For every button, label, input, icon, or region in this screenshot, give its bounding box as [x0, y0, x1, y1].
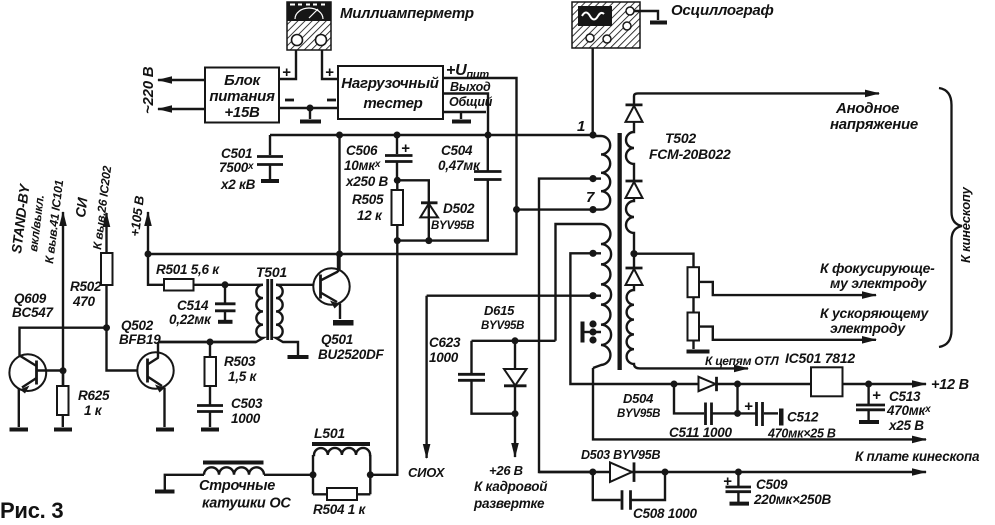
oscilloscope ground wire: [634, 11, 658, 20]
svg-text:К кадровой: К кадровой: [474, 479, 548, 494]
svg-text:BC547: BC547: [12, 305, 55, 320]
resistor R503: [205, 342, 217, 405]
wire power- to tester-: [279, 107, 338, 109]
node minus junction: [307, 105, 314, 112]
~220V lower wire: [158, 108, 205, 110]
label - power: [285, 99, 294, 102]
node pin1: [589, 131, 596, 138]
resistor screen: [688, 313, 700, 341]
wire tap253 down to D504 line: [570, 253, 674, 384]
svg-text:+: +: [325, 64, 334, 81]
IC501 box: [811, 367, 843, 396]
resistor R625: [54, 370, 72, 430]
svg-text:C514: C514: [177, 298, 209, 313]
svg-text:R502: R502: [70, 279, 102, 294]
svg-text:+: +: [872, 387, 881, 404]
wire +26V arrow: [514, 414, 516, 457]
node D502 anode: [425, 237, 432, 244]
svg-text:+: +: [401, 140, 410, 157]
node R505 bottom: [394, 237, 401, 244]
svg-text:C501: C501: [221, 146, 252, 161]
svg-text:Рис. 3: Рис. 3: [0, 498, 63, 523]
transformer T501 primary winding: [158, 285, 263, 342]
svg-text:220мк×250В: 220мк×250В: [753, 492, 832, 507]
wire between divider resistors: [692, 297, 694, 312]
svg-text:+: +: [723, 473, 732, 490]
capacitor C504: [474, 135, 502, 180]
svg-text:0,47мк: 0,47мк: [438, 158, 481, 173]
diode HV3: [626, 268, 643, 285]
svg-text:T501: T501: [256, 264, 287, 280]
svg-text:C512: C512: [787, 410, 819, 425]
power supply box: [205, 68, 279, 123]
svg-text:К ускоряющему: К ускоряющему: [820, 305, 930, 321]
svg-text:470мкх: 470мкх: [886, 403, 931, 418]
svg-text:1000: 1000: [429, 350, 459, 365]
ground T501 secondary: [288, 355, 309, 359]
svg-text:Строчные: Строчные: [199, 478, 275, 494]
wire Q609 collector: [20, 328, 107, 356]
label - tester: [327, 99, 336, 102]
wire Общий: [442, 111, 486, 113]
svg-text:C503: C503: [231, 396, 263, 411]
svg-text:D503 BYV95B: D503 BYV95B: [581, 448, 660, 462]
ground at minus: [309, 108, 311, 119]
capacitor C506: [385, 135, 413, 180]
capacitor C501: [257, 157, 283, 182]
node C513: [865, 381, 872, 388]
capacitor C623: [458, 341, 515, 414]
wire screen tap arrow: [699, 327, 876, 340]
node focus tap: [630, 250, 637, 257]
svg-text:BFB19: BFB19: [119, 332, 161, 347]
svg-text:C504: C504: [441, 143, 473, 158]
svg-text:К цепям ОТЛ: К цепям ОТЛ: [705, 354, 779, 368]
svg-text:BU2520DF: BU2520DF: [318, 347, 385, 362]
wire tap stubs lower: [593, 253, 601, 332]
wire meter to tester+: [322, 50, 338, 79]
+105V arrow wire: [147, 212, 149, 254]
wire IC out to +12V: [843, 383, 927, 385]
svg-text:Блок: Блок: [224, 72, 261, 89]
svg-text:Q502: Q502: [121, 318, 154, 333]
wire D504 cathode down: [736, 384, 738, 413]
node D504 cathode: [734, 381, 741, 388]
svg-text:C509: C509: [756, 477, 788, 492]
HV winding section 1: [626, 122, 634, 181]
wire D615 net: [472, 340, 556, 342]
wire +Upit out to pin7 and +105 bus: [148, 78, 517, 254]
transformer T501 secondary winding: [276, 285, 298, 355]
svg-text:1: 1: [577, 118, 585, 135]
wire secondary top lead to Q501 base: [276, 284, 321, 286]
main bus to pin 1: [270, 134, 593, 136]
svg-text:тестер: тестер: [363, 95, 422, 112]
diode HV2: [626, 181, 643, 198]
inductor L501 with R504: [312, 444, 370, 500]
svg-text:х25 В: х25 В: [888, 418, 924, 433]
transformer T502 HV secondary top lead / anode wire: [634, 93, 879, 105]
СИ arrow wire: [105, 213, 107, 253]
svg-text:BYV95B: BYV95B: [431, 220, 474, 232]
svg-text:Q501: Q501: [321, 332, 353, 347]
node Q609 base / stand-by: [60, 367, 67, 374]
svg-text:C513: C513: [889, 389, 921, 404]
capacitor C503: [197, 406, 223, 430]
node C508 left: [589, 469, 596, 476]
line deflection coils ground: [155, 490, 175, 494]
diode D502: [420, 203, 438, 241]
resistor R505: [392, 180, 404, 240]
diode D504: [674, 377, 811, 391]
transistor Q502: [137, 342, 174, 430]
svg-text:~220 В: ~220 В: [140, 66, 157, 114]
oscilloscope probe wire to node 1: [592, 48, 594, 135]
node L501 right: [367, 471, 374, 478]
svg-text:К выв.26 IC202: К выв.26 IC202: [90, 165, 114, 251]
svg-text:BYV95B: BYV95B: [617, 408, 660, 420]
capacitor C513: [856, 384, 885, 422]
brace К кинескопу: [939, 88, 962, 347]
svg-text:C511 1000: C511 1000: [669, 425, 733, 440]
svg-text:C508 1000: C508 1000: [633, 506, 698, 521]
node C506-: [394, 177, 401, 184]
svg-text:х2 кВ: х2 кВ: [220, 177, 256, 192]
svg-text:10мкх: 10мкх: [344, 158, 381, 173]
svg-text:C506: C506: [346, 143, 378, 158]
svg-text:му электроду: му электроду: [830, 275, 928, 291]
load tester box: [338, 66, 443, 119]
node tap 296: [589, 292, 596, 299]
svg-text:катушки ОС: катушки ОС: [202, 496, 291, 512]
svg-text:7: 7: [586, 189, 595, 206]
wire Q502 collector to T501: [158, 341, 256, 343]
wire focus divider top: [634, 254, 694, 268]
wire К плате кинескопа lower line: [539, 471, 926, 473]
node C512 junction: [734, 410, 741, 417]
svg-text:+Uпит: +Uпит: [446, 62, 489, 81]
diode D615: [504, 341, 527, 414]
wire coils to L501: [264, 474, 313, 476]
svg-text:0,22мк: 0,22мк: [169, 312, 212, 327]
svg-text:напряжение: напряжение: [830, 116, 918, 133]
wire C511 branch: [674, 384, 704, 413]
svg-text:Выход: Выход: [450, 80, 491, 94]
svg-text:470мк×25 В: 470мк×25 В: [767, 427, 836, 441]
stand-by arrow wire: [62, 212, 64, 386]
svg-text:L501: L501: [314, 425, 345, 441]
wire D502 top branch: [397, 180, 429, 203]
wire deflection return vertical: [370, 241, 397, 475]
capacitor C508: [593, 472, 665, 510]
svg-text:СИ: СИ: [72, 196, 90, 219]
svg-text:Нагрузочный: Нагрузочный: [341, 75, 438, 92]
wire tap179 down to D503 line: [539, 179, 593, 472]
resistor focus: [688, 267, 700, 297]
svg-text:IC501 7812: IC501 7812: [785, 350, 855, 366]
svg-text:7500х: 7500х: [219, 160, 254, 175]
transformer T502 primary lower winding: [593, 224, 611, 368]
svg-text:1 к: 1 к: [84, 403, 103, 418]
node +105/collector: [336, 251, 343, 258]
line deflection coils (Строчные катушки ОС): [203, 463, 264, 475]
capacitor C511: [706, 403, 738, 426]
svg-text:К плате кинескопа: К плате кинескопа: [855, 449, 980, 464]
transistor Q609: [9, 354, 63, 429]
transformer T502 primary upper winding: [593, 136, 610, 210]
svg-text:1,5 к: 1,5 к: [228, 369, 258, 384]
svg-text:Q609: Q609: [14, 291, 47, 306]
oscilloscope ground: [650, 21, 667, 25]
ground divider: [687, 350, 710, 354]
node +105 bus left: [145, 251, 152, 258]
ground at Общий: [460, 112, 462, 119]
wire bus down to +105 rail / Q501 collector: [338, 135, 340, 272]
svg-text:C623: C623: [429, 335, 461, 350]
wire lower winding top lead to D615: [556, 224, 594, 341]
svg-text:T502: T502: [665, 130, 696, 146]
node bus-C501 corner: [269, 135, 271, 155]
HV winding section 3: [627, 285, 748, 368]
svg-text:R503: R503: [224, 354, 256, 369]
svg-text:СИОХ: СИОХ: [408, 465, 446, 480]
wire СИОХ arrow: [425, 296, 427, 458]
svg-text:+: +: [744, 398, 753, 415]
node R503 top: [207, 339, 214, 346]
svg-text:питания: питания: [209, 88, 275, 105]
svg-text:х250 В: х250 В: [345, 174, 389, 189]
transformer T502 core: [618, 133, 622, 370]
svg-text:D615: D615: [484, 303, 515, 318]
node pin7 junction +Upit: [513, 206, 520, 213]
svg-text:Анодное: Анодное: [835, 100, 899, 117]
wire power+ to meter: [279, 50, 296, 79]
node D503 cathode: [662, 469, 669, 476]
wire tap296 to СИОХ: [427, 295, 593, 297]
capacitor C512: [738, 402, 784, 426]
svg-text:+105 В: +105 В: [127, 195, 147, 237]
node tap 253: [589, 250, 596, 257]
node L501 left: [310, 471, 317, 478]
node D504 anode: [671, 381, 678, 388]
milliammeter icon: [287, 2, 331, 50]
node D615 anode: [512, 337, 519, 344]
wire Выход down to bus: [442, 94, 488, 136]
svg-text:К кинескопу: К кинескопу: [958, 186, 973, 263]
svg-text:BYV95B: BYV95B: [481, 320, 524, 332]
wire pin 7: [517, 208, 594, 210]
wire tap stub: [593, 177, 601, 179]
svg-text:470: 470: [72, 294, 96, 309]
wire bottom frame to C504: [397, 181, 488, 241]
node pin7 end: [589, 206, 596, 213]
svg-text:R505: R505: [352, 192, 384, 207]
node bus x339: [336, 132, 343, 139]
node bus Выход/C504: [485, 132, 492, 139]
transformer T501 core: [268, 279, 272, 340]
wire divider to ground: [692, 341, 694, 350]
svg-text:D504: D504: [623, 391, 654, 406]
svg-text:развертке: развертке: [473, 496, 545, 511]
svg-text:электроду: электроду: [830, 320, 906, 336]
wire primary top lead: [256, 284, 263, 286]
resistor R502: [101, 253, 148, 371]
node C509: [735, 469, 742, 476]
svg-text:R504 1 к: R504 1 к: [313, 502, 367, 517]
wire winding bottom to kinescope board: [593, 368, 926, 439]
capacitor C514: [215, 285, 236, 322]
node D615 cathode: [512, 410, 519, 417]
svg-text:Осциллограф: Осциллограф: [671, 2, 774, 19]
svg-text:+12 В: +12 В: [931, 377, 969, 393]
svg-text:R501 5,6 к: R501 5,6 к: [156, 262, 220, 277]
capacitor C509: [726, 472, 752, 504]
resistor R501: [148, 254, 256, 291]
transistor Q501: [313, 254, 353, 326]
svg-text:12 к: 12 к: [357, 208, 383, 223]
node C514 top: [222, 281, 229, 288]
diode D503: [610, 462, 634, 482]
svg-text:Миллиамперметр: Миллиамперметр: [340, 5, 474, 22]
svg-text:R625: R625: [78, 388, 110, 403]
svg-text:+: +: [282, 64, 291, 81]
wire focus tap arrow: [699, 282, 876, 295]
svg-text:FCM-20B022: FCM-20B022: [649, 146, 731, 162]
wire ground to coils: [165, 475, 204, 490]
node taps ground: [589, 320, 596, 327]
node tap 179: [589, 175, 596, 182]
HV winding section 2: [626, 198, 634, 268]
svg-text:+26 В: +26 В: [489, 463, 523, 478]
svg-text:К фокусирующе-: К фокусирующе-: [820, 260, 935, 276]
svg-text:D502: D502: [443, 201, 475, 216]
diode HV1: [626, 105, 643, 122]
svg-text:Общий: Общий: [449, 95, 493, 109]
node bus C506: [394, 132, 401, 139]
node R502/Q609 collector: [103, 324, 110, 331]
svg-text:+15В: +15В: [224, 104, 260, 121]
oscilloscope icon: [572, 2, 640, 48]
~220V upper wire: [158, 79, 205, 81]
ground winding taps: [584, 331, 593, 333]
svg-text:1000: 1000: [231, 411, 261, 426]
